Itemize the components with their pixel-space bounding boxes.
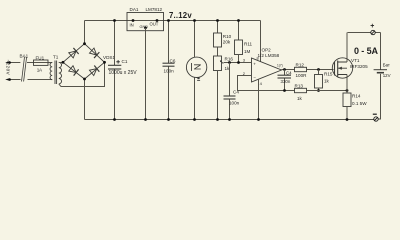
svg-text:R15: R15	[324, 72, 333, 77]
transistor VT1 IRF3205	[332, 33, 368, 94]
svg-text:7..12v: 7..12v	[169, 11, 192, 20]
stabilizer circle component	[186, 19, 206, 121]
svg-text:1/2 LM358: 1/2 LM358	[258, 53, 280, 58]
svg-text:C6: C6	[170, 58, 176, 63]
wire wiper to op-amp +in	[224, 62, 252, 64]
wire rail to op-amp pin8	[260, 21, 262, 62]
svg-text:R13: R13	[295, 83, 304, 88]
rectifier bridge VDS1	[62, 42, 116, 80]
svg-text:+: +	[253, 62, 256, 67]
svg-text:Бат: Бат	[383, 62, 390, 67]
svg-text:R11: R11	[244, 42, 253, 47]
node bridge left	[62, 61, 65, 64]
svg-text:330n: 330n	[281, 79, 291, 84]
svg-text:1(7): 1(7)	[277, 64, 283, 68]
svg-text:4: 4	[260, 81, 263, 86]
op-amp OP2 1/2 LM358	[243, 48, 283, 121]
capacitor C4 (330n)	[278, 70, 293, 92]
capacitor C6	[163, 19, 176, 121]
wire secondary top to bridge	[59, 62, 63, 64]
capacitor C1	[108, 19, 137, 121]
svg-text:OUT: OUT	[150, 22, 159, 27]
resistor R13	[295, 83, 349, 101]
svg-text:1M: 1M	[244, 49, 251, 54]
svg-text:R14: R14	[352, 94, 361, 99]
wire op-amp -in / feedback	[238, 76, 295, 91]
battery 12V	[374, 33, 391, 120]
wire bridge top to rail	[84, 21, 86, 45]
svg-text:0 - 5A: 0 - 5A	[354, 46, 379, 56]
wire secondary bottom to bridge right (AC return)	[59, 62, 105, 86]
diode VD3	[68, 65, 78, 75]
resistor R14 shunt	[343, 93, 367, 121]
wire DA1 GND to rail	[145, 28, 147, 120]
svg-text:OP2: OP2	[262, 48, 272, 53]
svg-text:1000u x 25V: 1000u x 25V	[109, 70, 138, 76]
diode VD4	[89, 66, 99, 76]
svg-text:R12: R12	[296, 62, 305, 67]
node bridge top	[83, 42, 86, 45]
svg-text:IRF3205: IRF3205	[350, 64, 368, 69]
regulator DA1 LM7812	[127, 7, 164, 121]
svg-text:VT1: VT1	[351, 58, 360, 63]
svg-text:−: −	[253, 75, 256, 80]
svg-text:T1: T1	[53, 55, 59, 60]
svg-text:12V: 12V	[383, 73, 391, 78]
svg-text:1k: 1k	[297, 96, 303, 101]
svg-text:20k: 20k	[223, 40, 231, 45]
wire op-amp output	[282, 69, 295, 71]
resistor R11	[235, 19, 253, 62]
svg-text:1k: 1k	[324, 79, 330, 84]
svg-text:100n: 100n	[229, 100, 240, 105]
svg-text:GND: GND	[140, 25, 149, 29]
potentiometer R16	[214, 56, 234, 121]
svg-text:DA1: DA1	[130, 7, 139, 12]
svg-text:100R: 100R	[296, 73, 308, 78]
wire bottom rail	[85, 119, 374, 121]
resistor R15	[315, 70, 333, 92]
node bridge right	[103, 61, 106, 64]
fuse FU1	[34, 56, 53, 73]
terminal - output	[373, 114, 378, 121]
wire top rail	[85, 20, 261, 22]
svg-text:3: 3	[243, 58, 246, 63]
wire drain up	[346, 33, 348, 63]
capacitor C4 (100n)	[224, 63, 240, 121]
svg-text:R16: R16	[225, 57, 234, 62]
svg-text:100n: 100n	[164, 69, 175, 74]
diode VD1	[68, 48, 78, 58]
svg-text:1A: 1A	[37, 68, 43, 73]
terminal + output	[370, 23, 375, 35]
wire bridge bottom to rail	[84, 79, 86, 120]
node bridge bottom	[83, 78, 86, 81]
svg-text:R10: R10	[223, 34, 232, 39]
wire pin4 to rail	[258, 79, 260, 119]
node 220V source terminals	[5, 60, 20, 81]
svg-text:LM7812: LM7812	[146, 7, 163, 12]
svg-text:C4: C4	[286, 70, 292, 75]
wire drain to + terminal	[348, 32, 381, 34]
resistor R12	[295, 62, 334, 78]
diode VD2	[89, 48, 99, 58]
switch BA1	[20, 54, 53, 82]
svg-text:+: +	[370, 23, 374, 30]
svg-text:0.1 5W: 0.1 5W	[352, 101, 367, 106]
resistor R10	[214, 19, 232, 56]
svg-text:C1: C1	[122, 59, 128, 64]
svg-text:VDS1: VDS1	[103, 55, 115, 60]
svg-text:~220V: ~220V	[6, 60, 11, 76]
wire source down through R14	[346, 75, 348, 94]
svg-text:IN: IN	[130, 23, 134, 28]
transformer T1	[50, 55, 61, 85]
